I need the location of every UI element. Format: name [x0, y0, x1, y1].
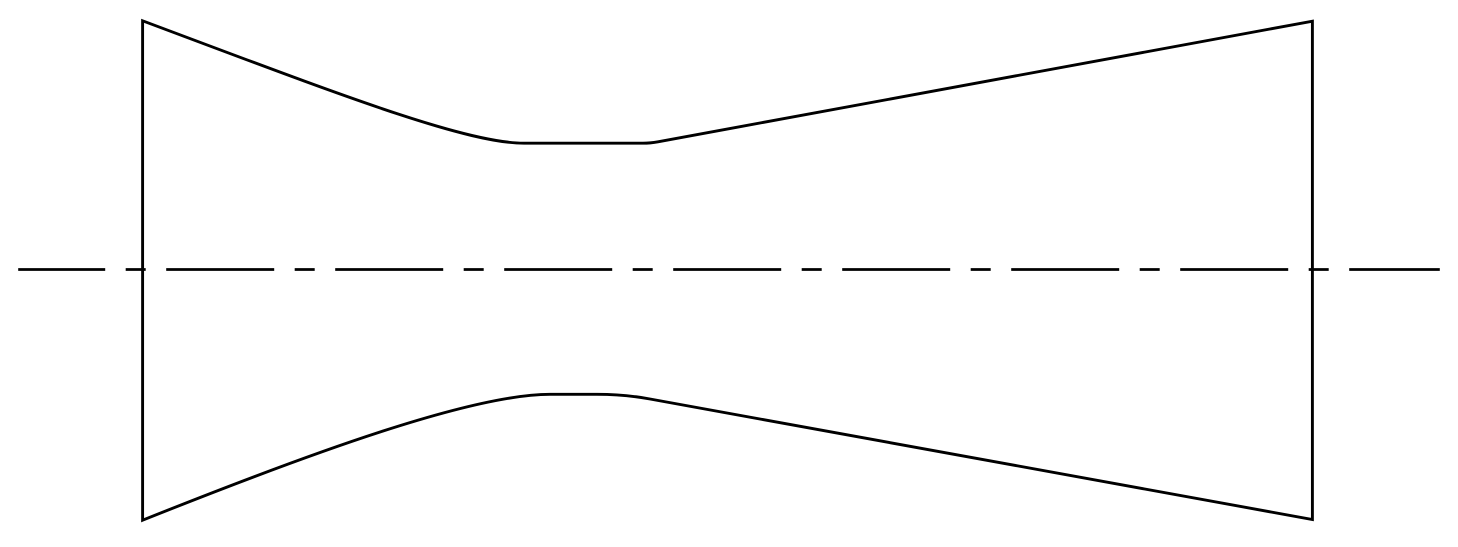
- centerline (dash-dot axis of nozzle): [18, 268, 1440, 271]
- nozzle outline (inlet edge, converging section, throat, diverging section, outlet edge): [143, 21, 1313, 520]
